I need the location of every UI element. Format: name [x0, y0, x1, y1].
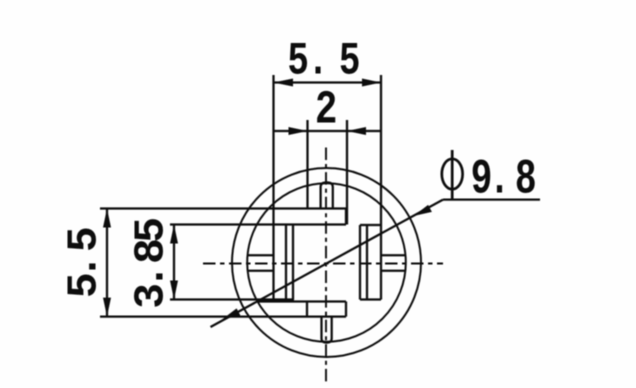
- svg-text:5.5: 5.5: [60, 226, 109, 298]
- svg-text:3.85: 3.85: [127, 217, 176, 309]
- svg-text:2: 2: [315, 84, 338, 137]
- svg-text:5.5: 5.5: [287, 37, 360, 88]
- svg-text:9.8: 9.8: [471, 151, 537, 207]
